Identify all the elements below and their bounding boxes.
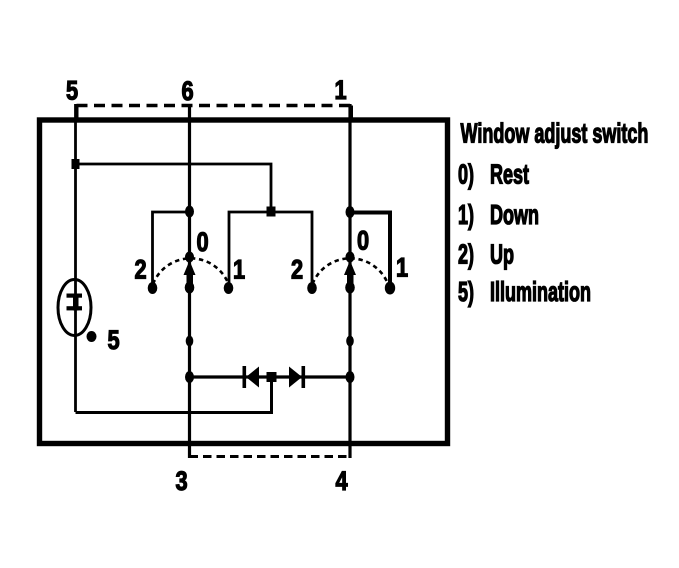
lamp filament — [67, 294, 83, 298]
svg-text:6: 6 — [182, 77, 194, 107]
wire terminal 1 / switch 2 vertical — [348, 104, 351, 458]
switch 1 contact 1 dot — [224, 282, 234, 294]
node diode row right — [346, 371, 355, 383]
switch 1 contact 2 dot — [148, 282, 158, 294]
wire terminal 5 vertical — [74, 104, 77, 412]
switch 1 wiper node — [185, 252, 194, 263]
diode D1 (cathode left) — [243, 366, 247, 388]
svg-text:1: 1 — [233, 256, 245, 286]
wire terminal 6 / switch 1 vertical — [188, 104, 191, 458]
wire diode midpoint tap to lamp — [76, 377, 272, 413]
node switch1 top — [185, 206, 194, 218]
node switch2 top — [346, 206, 355, 218]
svg-text:5): 5) — [458, 276, 474, 307]
svg-text:1: 1 — [335, 76, 347, 106]
svg-text:2: 2 — [291, 256, 303, 286]
diode D2 (cathode right) — [289, 367, 302, 388]
svg-text:1): 1) — [458, 199, 474, 230]
node middle bracket junction — [267, 207, 276, 217]
lamp node dot — [87, 331, 97, 342]
node diode midpoint — [267, 372, 277, 382]
wire diode row — [190, 375, 351, 378]
svg-text:0: 0 — [197, 228, 209, 258]
svg-text:4: 4 — [336, 467, 349, 497]
svg-text:Rest: Rest — [490, 159, 529, 190]
svg-text:0: 0 — [357, 227, 369, 257]
switch 2 wiper node — [346, 252, 355, 263]
connector outline bottom (dashed) — [190, 455, 352, 458]
svg-text:0): 0) — [458, 159, 474, 190]
svg-text:5: 5 — [108, 326, 120, 356]
switch 2 wiper arc — [313, 258, 389, 284]
svg-text:Illumination: Illumination — [490, 276, 591, 307]
wire top horizontal from node 5 — [76, 164, 272, 212]
lamp L (illumination) — [58, 280, 91, 336]
svg-text:1: 1 — [396, 254, 408, 284]
switch body outline (solid box) — [40, 120, 448, 444]
svg-text:Down: Down — [490, 199, 539, 230]
svg-text:5: 5 — [66, 77, 78, 107]
node on terminal 5 wire — [72, 159, 80, 169]
connector outline top (dashed) — [77, 106, 352, 119]
svg-text:2): 2) — [458, 239, 474, 270]
svg-text:2: 2 — [135, 256, 147, 286]
wire middle bracket — [229, 212, 312, 283]
switch 1 center contact arrow — [184, 261, 196, 276]
node on switch2 wire lower — [346, 336, 354, 347]
switch 1 contact 0 dot — [185, 282, 195, 294]
svg-text:Window adjust switch: Window adjust switch — [461, 118, 649, 149]
switch 2 contact 2 dot — [307, 282, 317, 294]
switch 2 contact 0 dot — [345, 282, 355, 294]
switch 1 wiper arc — [153, 258, 229, 284]
node on switch1 wire lower — [186, 336, 194, 347]
node diode row left — [185, 371, 194, 383]
wire switch2 right bracket — [350, 213, 390, 284]
switch 2 contact 1 dot — [385, 282, 395, 295]
switch 2 center contact arrow — [344, 261, 356, 276]
svg-text:3: 3 — [176, 467, 188, 497]
svg-text:Up: Up — [490, 239, 514, 270]
wire switch1 left bracket — [153, 212, 190, 283]
